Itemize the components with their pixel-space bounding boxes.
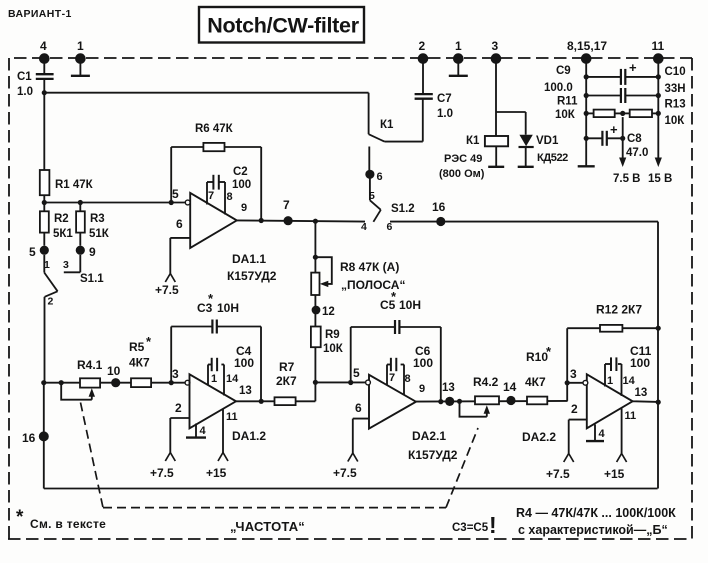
svg-text:7: 7 — [389, 372, 395, 384]
svg-text:47.0: 47.0 — [626, 147, 648, 159]
svg-text:R4.2: R4.2 — [473, 375, 499, 389]
svg-text:К1: К1 — [466, 135, 480, 147]
svg-text:R6 47К: R6 47К — [195, 123, 234, 135]
svg-text:DA1.1: DA1.1 — [232, 252, 266, 266]
svg-text:14: 14 — [226, 373, 239, 385]
svg-text:100: 100 — [234, 356, 254, 370]
svg-text:14: 14 — [623, 375, 636, 387]
svg-text:DA1.2: DA1.2 — [232, 429, 266, 443]
svg-text:11: 11 — [226, 411, 238, 423]
svg-text:КД522: КД522 — [537, 152, 568, 164]
svg-text:1: 1 — [211, 373, 217, 385]
svg-text:1: 1 — [607, 375, 613, 387]
svg-text:4: 4 — [200, 425, 207, 437]
svg-text:R4.1: R4.1 — [77, 358, 103, 372]
svg-text:К1: К1 — [380, 119, 394, 131]
svg-text:100: 100 — [232, 179, 251, 191]
svg-text:13: 13 — [442, 382, 455, 394]
svg-text:R8 47К (А): R8 47К (А) — [340, 260, 399, 274]
svg-text:1: 1 — [44, 259, 50, 271]
svg-text:+15: +15 — [604, 467, 625, 481]
svg-text:DA2.1: DA2.1 — [412, 429, 446, 443]
svg-text:R3: R3 — [90, 213, 105, 225]
svg-text:+7.5: +7.5 — [333, 466, 357, 480]
svg-text:10К: 10К — [323, 343, 344, 355]
svg-text:10К: 10К — [665, 115, 686, 127]
svg-text:R11: R11 — [557, 96, 578, 108]
svg-text:13: 13 — [635, 387, 648, 399]
svg-text:8: 8 — [227, 191, 233, 203]
svg-text:10Н: 10Н — [217, 301, 239, 315]
svg-text:C2: C2 — [233, 166, 248, 178]
svg-text:10К: 10К — [555, 109, 576, 121]
svg-text:6: 6 — [387, 221, 393, 233]
svg-text:10: 10 — [107, 364, 121, 378]
svg-text:5: 5 — [172, 187, 179, 201]
svg-text:1: 1 — [455, 39, 462, 53]
svg-text:К157УД2: К157УД2 — [227, 269, 277, 283]
svg-text:2: 2 — [571, 402, 578, 416]
svg-text:7: 7 — [283, 198, 290, 212]
svg-text:2: 2 — [419, 39, 426, 53]
svg-text:3: 3 — [172, 367, 179, 381]
svg-text:100: 100 — [630, 356, 650, 370]
svg-text:S1.1: S1.1 — [80, 273, 104, 285]
svg-text:9: 9 — [419, 383, 425, 395]
svg-text:1: 1 — [77, 39, 84, 53]
svg-text:4: 4 — [361, 221, 367, 233]
svg-text:C7: C7 — [437, 93, 452, 105]
svg-text:Notch/CW-filter: Notch/CW-filter — [207, 14, 359, 38]
svg-text:4: 4 — [599, 428, 606, 440]
svg-text:с характеристикой—„Б“: с характеристикой—„Б“ — [518, 523, 668, 537]
svg-text:R4 — 47К/47К ... 100К/100К: R4 — 47К/47К ... 100К/100К — [516, 506, 676, 520]
svg-text:DA2.2: DA2.2 — [522, 430, 556, 444]
svg-text:11: 11 — [625, 410, 637, 422]
svg-text:+: + — [629, 60, 637, 75]
svg-text:10Н: 10Н — [399, 298, 421, 312]
svg-text:9: 9 — [241, 202, 247, 214]
svg-text:100: 100 — [413, 356, 433, 370]
svg-text:12: 12 — [322, 306, 335, 318]
svg-text:R13: R13 — [665, 99, 686, 111]
svg-text:C10: C10 — [665, 66, 686, 78]
svg-text:РЭС 49: РЭС 49 — [444, 153, 482, 165]
svg-text:5К1: 5К1 — [53, 228, 73, 240]
svg-text:11: 11 — [652, 39, 665, 53]
svg-text:S1.2: S1.2 — [391, 203, 415, 215]
svg-text:4: 4 — [40, 39, 47, 53]
svg-text:7.5 В: 7.5 В — [613, 173, 641, 185]
svg-text:8,15,17: 8,15,17 — [567, 39, 607, 53]
svg-text:6: 6 — [377, 171, 383, 183]
svg-text:2: 2 — [175, 401, 182, 415]
svg-text:R7: R7 — [279, 360, 295, 374]
svg-text:5: 5 — [353, 366, 360, 380]
svg-text:R12 2К7: R12 2К7 — [596, 303, 642, 317]
svg-text:!: ! — [489, 512, 497, 538]
svg-text:R10: R10 — [526, 350, 548, 364]
svg-text:6: 6 — [355, 401, 362, 415]
svg-text:51К: 51К — [89, 228, 110, 240]
svg-text:15 В: 15 В — [648, 173, 672, 185]
svg-text:14: 14 — [503, 380, 517, 394]
svg-text:R2: R2 — [54, 213, 69, 225]
svg-text:R9: R9 — [325, 329, 340, 341]
svg-text:+15: +15 — [206, 466, 227, 480]
svg-text:13: 13 — [239, 385, 252, 397]
svg-text:„ЧАСТОТА“: „ЧАСТОТА“ — [230, 519, 305, 534]
svg-text:3: 3 — [63, 259, 69, 271]
svg-text:1.0: 1.0 — [437, 108, 453, 120]
svg-text:+7.5: +7.5 — [150, 466, 174, 480]
svg-text:1.0: 1.0 — [17, 86, 33, 98]
svg-text:3: 3 — [570, 367, 577, 381]
svg-text:C1: C1 — [17, 71, 32, 83]
svg-text:4К7: 4К7 — [525, 375, 546, 389]
svg-text:*: * — [16, 507, 24, 528]
svg-text:16: 16 — [432, 200, 446, 214]
svg-text:C8: C8 — [627, 133, 642, 145]
svg-text:4К7: 4К7 — [129, 356, 150, 370]
svg-text:6: 6 — [176, 217, 183, 231]
svg-text:5: 5 — [369, 190, 375, 202]
svg-text:+: + — [610, 122, 618, 137]
svg-text:2: 2 — [48, 296, 54, 308]
svg-text:+7.5: +7.5 — [546, 467, 570, 481]
svg-text:5: 5 — [29, 245, 36, 259]
svg-text:100.0: 100.0 — [544, 82, 573, 94]
svg-text:См. в тексте: См. в тексте — [30, 517, 106, 531]
svg-text:ВАРИАНТ-1: ВАРИАНТ-1 — [8, 8, 72, 20]
svg-text:R1 47К: R1 47К — [55, 179, 94, 191]
svg-text:R5: R5 — [129, 340, 145, 354]
svg-text:(800 Ом): (800 Ом) — [439, 168, 485, 180]
svg-text:9: 9 — [89, 245, 96, 259]
svg-text:3: 3 — [492, 39, 499, 53]
svg-text:C3=C5: C3=C5 — [452, 522, 489, 534]
svg-text:16: 16 — [22, 431, 36, 445]
svg-text:C9: C9 — [556, 65, 571, 77]
svg-text:2К7: 2К7 — [276, 374, 297, 388]
svg-text:К157УД2: К157УД2 — [408, 448, 458, 462]
svg-text:8: 8 — [405, 373, 411, 385]
svg-text:+7.5: +7.5 — [155, 283, 179, 297]
svg-text:VD1: VD1 — [536, 135, 559, 147]
svg-text:7: 7 — [208, 190, 214, 202]
svg-text:33Н: 33Н — [665, 83, 686, 95]
